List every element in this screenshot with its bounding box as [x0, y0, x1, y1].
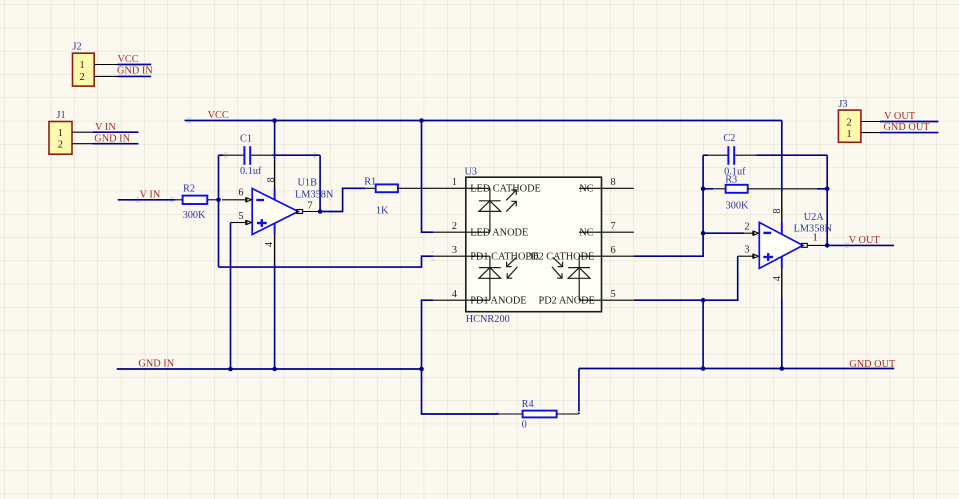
svg-text:2: 2 — [80, 72, 85, 83]
svg-text:4: 4 — [452, 289, 457, 300]
wire pin5 node to GND OUT — [702, 300, 704, 368]
svg-text:LM358N: LM358N — [295, 189, 334, 200]
U2A pin 4 power line — [772, 257, 783, 369]
U1B pin 7 output — [297, 200, 320, 213]
wire J1 pin2 GND IN — [92, 143, 138, 145]
wire U3 pin4 to GND IN — [422, 300, 434, 369]
wire node bottom to U3 pin3 — [219, 256, 434, 267]
resistor R1 — [364, 177, 433, 217]
resistor R4 — [499, 399, 579, 431]
svg-text:J1: J1 — [57, 110, 66, 121]
wire input node vertical — [218, 155, 220, 267]
U3 pin 4 — [433, 289, 466, 300]
svg-text:R2: R2 — [183, 183, 195, 194]
junction VCC / U3 pin2 drop — [419, 118, 424, 123]
wire VCC drop to U3 pin2 — [422, 121, 434, 233]
J1 pin 2 — [58, 140, 93, 151]
J3 pin 2 — [847, 118, 881, 129]
svg-text:5: 5 — [238, 211, 243, 222]
svg-text:6: 6 — [238, 188, 243, 199]
J1 pin 1 — [58, 128, 93, 139]
U3 pin 6 — [602, 245, 634, 256]
svg-text:2: 2 — [58, 140, 63, 151]
resistor R2 — [175, 183, 218, 221]
connector J2 — [73, 42, 95, 87]
U2A pin 3 — [738, 245, 759, 259]
svg-text:U2A: U2A — [804, 212, 825, 223]
junction GND OUT / U2A pin4 — [780, 366, 785, 371]
U1B pin 6 — [222, 188, 251, 203]
svg-text:J3: J3 — [838, 99, 847, 110]
svg-text:J2: J2 — [73, 42, 82, 53]
wire GND IN to R4 — [422, 369, 499, 414]
J2 pin 2 — [80, 72, 118, 83]
svg-text:2: 2 — [452, 221, 457, 232]
svg-text:7: 7 — [611, 221, 616, 232]
U3 pin name NC (8) — [579, 184, 602, 195]
connector J3 — [838, 99, 861, 143]
U3 pin name PD1 ANODE — [466, 295, 527, 306]
svg-text:R1: R1 — [364, 177, 376, 188]
wire J2 pin1 VCC — [118, 64, 152, 66]
junction R3 right / feedback — [825, 187, 830, 192]
photodiode PD2 in U3 — [552, 256, 590, 300]
svg-text:2: 2 — [847, 118, 852, 129]
svg-text:V IN: V IN — [140, 189, 161, 200]
svg-text:LED ANODE: LED ANODE — [470, 227, 528, 238]
IC U3 body — [465, 166, 602, 325]
wire J3 pin2 V OUT — [880, 121, 938, 123]
wire J3 pin1 GND OUT — [880, 132, 938, 134]
compile marks — [136, 118, 849, 413]
svg-text:300K: 300K — [183, 210, 206, 221]
U3 pin name PD2 ANODE — [539, 295, 602, 306]
junction GND IN corner / U3 pin4 — [419, 367, 424, 372]
svg-text:GND IN: GND IN — [94, 133, 130, 144]
svg-text:C2: C2 — [723, 133, 735, 144]
resistor R3 — [703, 174, 827, 211]
U2A pin 8 power line — [772, 121, 783, 235]
svg-text:4: 4 — [264, 242, 275, 247]
svg-text:NC: NC — [579, 227, 593, 238]
svg-text:7: 7 — [308, 200, 313, 211]
svg-text:VCC: VCC — [118, 54, 139, 65]
svg-text:R3: R3 — [725, 174, 737, 185]
J2 pin 1 — [80, 60, 118, 71]
svg-text:R4: R4 — [522, 399, 534, 410]
svg-text:1: 1 — [80, 60, 85, 71]
svg-text:V OUT: V OUT — [849, 235, 881, 246]
U3 pin name LED CATHODE — [466, 184, 541, 195]
junction U2A output — [825, 243, 830, 248]
U3 pin 3 — [433, 245, 466, 256]
svg-text:1: 1 — [847, 129, 852, 140]
wire J1 pin1 V IN — [92, 131, 138, 133]
svg-text:4: 4 — [772, 276, 783, 281]
J3 pin 1 — [847, 129, 881, 140]
wire U3 pin5 row — [634, 256, 738, 300]
U3 pin 8 — [602, 177, 634, 188]
photodiode PD1 in U3 — [479, 256, 518, 300]
svg-text:8: 8 — [772, 208, 783, 213]
svg-text:2: 2 — [744, 222, 749, 233]
svg-text:5: 5 — [611, 289, 616, 300]
svg-text:GND OUT: GND OUT — [884, 122, 931, 133]
svg-text:1: 1 — [58, 128, 63, 139]
svg-text:U3: U3 — [465, 166, 478, 177]
junction VCC / U1B pin8 — [272, 118, 277, 123]
svg-text:6: 6 — [611, 245, 616, 256]
wire C1 feedback drop to output — [319, 155, 321, 211]
capacitor C1 — [219, 134, 321, 178]
svg-text:GND OUT: GND OUT — [849, 359, 896, 370]
junction U2A pin2 node — [701, 231, 706, 236]
LED symbol in U3 — [479, 188, 516, 232]
junction GND OUT / input node — [701, 366, 706, 371]
svg-text:V OUT: V OUT — [884, 111, 916, 122]
svg-text:GND IN: GND IN — [117, 66, 153, 77]
U1B pin 5 — [231, 211, 252, 225]
wire U1B output to R1 — [320, 188, 366, 211]
junction GND IN / U1B pin4 — [272, 367, 277, 372]
U2A pin 1 output — [802, 232, 828, 247]
op-amp U1B — [252, 178, 334, 235]
U3 pin 2 — [433, 221, 466, 232]
svg-text:0: 0 — [522, 420, 527, 431]
U3 pin 7 — [602, 221, 634, 232]
wire V IN to R2 — [118, 199, 175, 201]
svg-text:1K: 1K — [376, 206, 389, 217]
U3 pin name LED ANODE — [466, 227, 528, 238]
wire GND IN rail — [117, 368, 422, 370]
svg-text:300K: 300K — [726, 201, 749, 212]
svg-text:VCC: VCC — [208, 110, 229, 121]
svg-text:C1: C1 — [240, 134, 252, 145]
junction GND IN / U1B pin5 — [228, 367, 233, 372]
wire U2A pin2 — [703, 232, 744, 234]
U3 pin 5 — [602, 289, 634, 300]
svg-text:0.1uf: 0.1uf — [240, 166, 262, 177]
svg-text:HCNR200: HCNR200 — [466, 314, 510, 325]
svg-text:8: 8 — [611, 177, 616, 188]
svg-text:PD2 ANODE: PD2 ANODE — [539, 295, 595, 306]
svg-text:NC: NC — [579, 184, 593, 195]
wire V OUT — [827, 244, 894, 246]
svg-text:GND IN: GND IN — [138, 359, 174, 370]
U3 pin 1 — [433, 177, 466, 188]
U3 pin name NC (7) — [579, 227, 602, 238]
U3 pin name PD1 CATHODE — [470, 251, 539, 262]
capacitor C2 — [703, 133, 827, 177]
svg-text:1: 1 — [452, 177, 457, 188]
wire VCC rail — [185, 120, 782, 122]
svg-text:LED CATHODE: LED CATHODE — [470, 184, 541, 195]
junction R3 left — [701, 187, 706, 192]
U3 pin name PD2 CATHODE — [466, 251, 602, 262]
wire GND OUT rail — [579, 368, 894, 370]
svg-text:U1B: U1B — [298, 178, 318, 189]
svg-text:3: 3 — [744, 245, 749, 256]
wire R4 to GND OUT rail — [578, 369, 580, 415]
wire U1B pin5 to GND IN — [230, 223, 232, 370]
svg-text:3: 3 — [452, 245, 457, 256]
svg-text:8: 8 — [266, 177, 277, 182]
op-amp U2A — [759, 212, 832, 269]
svg-text:PD2 CATHODE: PD2 CATHODE — [525, 251, 594, 262]
svg-text:PD1 ANODE: PD1 ANODE — [470, 295, 526, 306]
junction U1B output — [318, 209, 323, 214]
U1B pin 4 power line — [264, 223, 275, 369]
U2A pin 2 — [744, 222, 759, 236]
svg-text:V IN: V IN — [95, 122, 116, 133]
junction pin5 node — [701, 298, 706, 303]
wire feedback drop to U2A output — [826, 155, 828, 245]
connector J1 — [49, 110, 72, 154]
wire J2 pin2 GND IN — [118, 75, 152, 77]
U1B pin 8 power line — [266, 121, 277, 201]
junction node R2/pin6/C1 — [216, 198, 221, 203]
svg-text:1: 1 — [813, 232, 818, 243]
wire U3 pin6 to input node — [634, 155, 703, 256]
